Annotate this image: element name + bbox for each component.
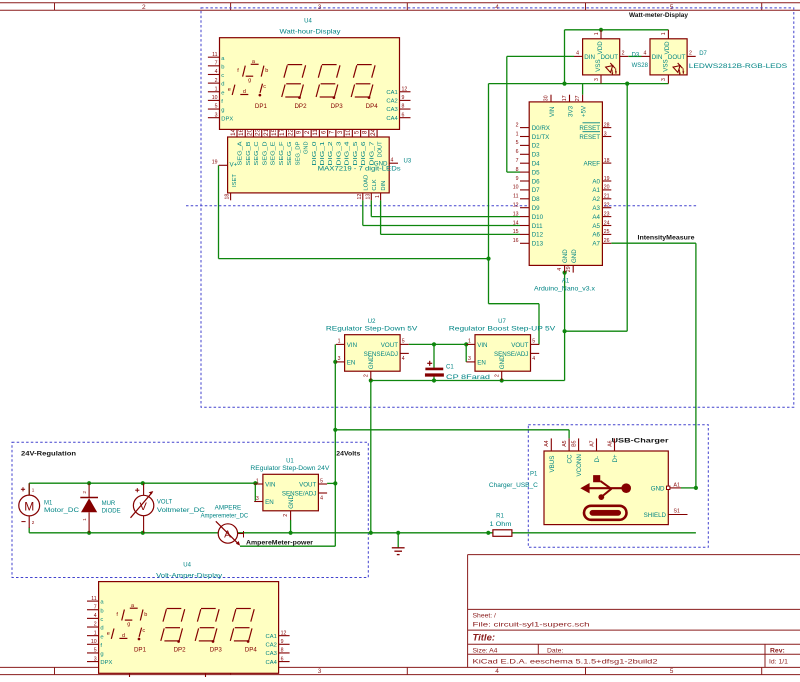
wire GND net arduino to rail [565, 84, 628, 381]
svg-text:RESET: RESET [579, 125, 600, 132]
wire ground symbol stem [397, 533, 399, 548]
svg-text:3: 3 [594, 78, 600, 81]
svg-text:20: 20 [246, 128, 253, 135]
svg-text:MAX7219 - 7 digit-LEDs: MAX7219 - 7 digit-LEDs [318, 167, 401, 173]
svg-text:DOUT: DOUT [668, 54, 686, 61]
svg-text:11: 11 [91, 596, 96, 602]
svg-text:2: 2 [82, 491, 88, 494]
svg-text:5: 5 [353, 130, 360, 134]
svg-text:8: 8 [516, 167, 519, 173]
svg-text:DIG_3: DIG_3 [336, 142, 342, 166]
svg-text:VSS: VSS [595, 59, 602, 71]
svg-text:SEG_G: SEG_G [287, 142, 293, 166]
svg-text:A1: A1 [562, 279, 570, 285]
svg-text:P1: P1 [530, 472, 538, 478]
svg-text:A4: A4 [544, 440, 550, 446]
svg-text:WS28: WS28 [632, 63, 649, 69]
svg-text:4: 4 [215, 69, 218, 75]
svg-text:REgulator Step-Down 24V: REgulator Step-Down 24V [250, 466, 329, 472]
svg-text:1: 1 [661, 32, 667, 35]
svg-text:6: 6 [281, 656, 284, 662]
svg-text:25: 25 [604, 229, 610, 235]
svg-text:Date:: Date: [547, 647, 563, 654]
title block [468, 555, 800, 668]
svg-text:9: 9 [281, 639, 284, 645]
svg-text:11: 11 [312, 129, 319, 136]
svg-text:VIN: VIN [549, 107, 556, 117]
svg-text:DIG_2: DIG_2 [328, 142, 334, 166]
svg-text:SEG_A: SEG_A [238, 141, 244, 165]
svg-text:D3: D3 [632, 53, 640, 59]
svg-text:CA4: CA4 [266, 660, 278, 666]
svg-text:5: 5 [215, 104, 218, 110]
svg-text:6: 6 [516, 149, 519, 155]
svg-text:e: e [107, 631, 110, 637]
svg-text:17: 17 [562, 95, 568, 101]
wire U1 VOUT link [327, 482, 335, 484]
svg-text:c: c [221, 73, 224, 79]
svg-text:SEG_DP: SEG_DP [295, 141, 301, 165]
svg-text:AmpereMeter-power: AmpereMeter-power [246, 540, 313, 547]
svg-text:4: 4 [644, 51, 647, 57]
svg-text:14: 14 [513, 220, 519, 226]
svg-text:VOUT: VOUT [381, 342, 398, 349]
svg-text:VOUT: VOUT [299, 482, 316, 489]
svg-text:24: 24 [604, 220, 610, 226]
svg-text:15: 15 [271, 128, 278, 135]
svg-text:2: 2 [689, 51, 692, 57]
svg-text:U1: U1 [286, 459, 294, 465]
svg-text:24V-Regulation: 24V-Regulation [21, 451, 76, 458]
svg-text:27: 27 [575, 95, 581, 101]
voltmeter VOLT Voltmeter_DC [131, 483, 206, 532]
svg-text:24Volts: 24Volts [336, 450, 360, 457]
svg-text:D7: D7 [699, 51, 707, 57]
svg-text:10: 10 [345, 128, 352, 135]
svg-text:26: 26 [604, 238, 610, 244]
svg-text:Id: 1/1: Id: 1/1 [769, 659, 788, 666]
wire 24V to USB CC pin [335, 430, 569, 439]
svg-text:U4: U4 [304, 19, 312, 25]
wire amperemeter to 24Volts [240, 545, 335, 547]
svg-text:D10: D10 [532, 214, 544, 221]
svg-text:5: 5 [670, 668, 674, 675]
svg-text:Watt-hour-Display: Watt-hour-Display [280, 30, 341, 36]
svg-text:7: 7 [516, 158, 519, 164]
svg-text:d: d [243, 89, 246, 95]
svg-text:Voltmeter_DC: Voltmeter_DC [157, 508, 206, 514]
svg-text:9: 9 [402, 95, 405, 101]
svg-text:DP2: DP2 [174, 647, 187, 654]
svg-text:Rev:: Rev: [770, 647, 785, 654]
regulator U7 boost step-up 5V [449, 319, 556, 381]
svg-text:LEDWS2812B-RGB-LEDS: LEDWS2812B-RGB-LEDS [689, 64, 787, 70]
svg-text:b: b [265, 68, 268, 74]
svg-text:DP4: DP4 [245, 647, 258, 654]
regulator U2 step-down 5V [326, 319, 418, 381]
wire V+ of U3 to +5V [219, 165, 489, 258]
svg-text:b: b [144, 612, 147, 618]
svg-text:A0: A0 [592, 178, 600, 185]
svg-text:3: 3 [215, 112, 218, 118]
svg-text:A6: A6 [592, 232, 600, 239]
svg-text:VIN: VIN [265, 482, 275, 489]
svg-text:GND: GND [651, 485, 665, 492]
wire D3 DOUT to D7 DIN [628, 55, 641, 57]
svg-text:4: 4 [391, 158, 394, 164]
svg-text:2: 2 [304, 130, 311, 134]
svg-text:A6: A6 [607, 440, 613, 446]
svg-text:Size: A4: Size: A4 [473, 647, 498, 654]
wire DIN to D12 [381, 200, 520, 234]
svg-text:DOUT: DOUT [378, 141, 384, 157]
svg-text:SEG_F: SEG_F [279, 141, 285, 166]
svg-text:22: 22 [604, 203, 610, 209]
svg-text:DIN: DIN [584, 54, 595, 61]
svg-text:Watt-meter-Display: Watt-meter-Display [629, 12, 688, 19]
svg-text:e: e [221, 90, 224, 96]
svg-text:c: c [142, 628, 145, 634]
svg-text:VDD: VDD [664, 41, 671, 55]
svg-text:5: 5 [320, 478, 323, 484]
svg-text:4: 4 [320, 496, 323, 502]
svg-text:EN: EN [477, 359, 486, 366]
diode MUR DIODE [80, 483, 120, 532]
svg-text:b: b [221, 64, 224, 70]
svg-text:7: 7 [329, 130, 336, 134]
svg-text:12: 12 [281, 630, 287, 636]
svg-text:GND: GND [368, 355, 375, 369]
svg-text:MUR: MUR [102, 501, 116, 507]
svg-text:VDD: VDD [597, 41, 604, 55]
wire VDD rail to WS2812 LEDs [565, 30, 669, 84]
svg-text:KiCad E.D.A. eeschema 5.1.5+d: KiCad E.D.A. eeschema 5.1.5+dfsg1-2build… [473, 659, 658, 666]
svg-text:USB-Charger: USB-Charger [612, 437, 669, 444]
svg-text:CA1: CA1 [386, 90, 397, 96]
svg-text:5: 5 [532, 339, 535, 345]
svg-text:U3: U3 [404, 158, 412, 164]
svg-text:10: 10 [91, 639, 97, 645]
svg-text:VBUS: VBUS [549, 456, 556, 473]
svg-text:U4: U4 [183, 562, 191, 568]
svg-text:D7: D7 [532, 187, 540, 194]
svg-text:DIODE: DIODE [102, 509, 121, 515]
svg-text:1: 1 [516, 131, 519, 137]
svg-text:RESET: RESET [579, 134, 600, 141]
svg-text:6: 6 [320, 130, 327, 134]
svg-text:A7: A7 [592, 241, 600, 248]
svg-text:8: 8 [402, 104, 405, 110]
capacitor C1 CP 8Farad [425, 361, 490, 381]
svg-text:1: 1 [256, 478, 259, 484]
svg-text:DP2: DP2 [294, 103, 307, 110]
wire GND rail [371, 380, 565, 382]
svg-text:U7: U7 [498, 319, 506, 325]
svg-text:CA2: CA2 [266, 643, 277, 649]
svg-text:2: 2 [494, 374, 500, 377]
svg-text:16: 16 [513, 238, 519, 244]
svg-text:9: 9 [296, 130, 303, 134]
LED D7 WS2812B [641, 30, 695, 84]
net label 24Volts [336, 450, 360, 457]
svg-text:2: 2 [32, 520, 35, 525]
svg-text:2: 2 [622, 51, 625, 57]
svg-text:g: g [127, 621, 130, 627]
svg-text:8: 8 [362, 130, 369, 134]
amperemeter AMPERE Amperemeter_DC [201, 505, 249, 545]
svg-text:EN: EN [265, 499, 274, 506]
connector P1 Charger_USB_C [489, 438, 688, 524]
svg-text:C1: C1 [446, 365, 454, 371]
dashed box Watt-meter-Display [201, 8, 794, 407]
svg-text:D1/TX: D1/TX [532, 134, 550, 141]
svg-text:12: 12 [513, 203, 519, 209]
svg-text:D8: D8 [532, 196, 540, 203]
svg-text:8: 8 [281, 648, 284, 654]
svg-text:3V3: 3V3 [567, 105, 574, 117]
svg-text:13: 13 [513, 211, 519, 217]
svg-text:CC: CC [567, 454, 574, 463]
svg-text:CA4: CA4 [386, 116, 398, 122]
resistor R1 1 Ohm [490, 513, 512, 536]
svg-text:B5: B5 [571, 440, 577, 446]
svg-text:b: b [100, 608, 103, 614]
svg-text:IntensityMeasure: IntensityMeasure [638, 234, 695, 241]
svg-text:Title:: Title: [473, 633, 496, 644]
wire C1 leads [433, 344, 435, 380]
svg-text:A2: A2 [592, 196, 600, 203]
svg-text:5: 5 [516, 140, 519, 146]
wire IntensityMeasure A7 to USB GND [611, 243, 696, 488]
svg-text:+5V: +5V [580, 105, 587, 117]
svg-text:VCONN: VCONN [576, 454, 583, 476]
LED D3 WS2812 [574, 30, 628, 84]
svg-text:GND: GND [304, 142, 310, 154]
svg-text:DP1: DP1 [134, 647, 147, 654]
dashed box 24V-Regulation [12, 442, 368, 577]
IC U3 MAX7219 [212, 128, 412, 200]
svg-text:21: 21 [604, 194, 610, 200]
svg-text:D+: D+ [612, 454, 619, 462]
svg-text:DOUT: DOUT [600, 54, 618, 61]
svg-text:D5: D5 [532, 169, 540, 176]
svg-text:A3: A3 [592, 205, 600, 212]
svg-text:Volt-Amper-Display: Volt-Amper-Display [156, 573, 222, 579]
svg-text:V+: V+ [230, 162, 238, 169]
svg-text:21: 21 [263, 128, 270, 135]
svg-text:4: 4 [557, 268, 563, 271]
svg-text:CA1: CA1 [266, 634, 277, 640]
svg-text:GND: GND [499, 355, 506, 369]
svg-text:9: 9 [516, 176, 519, 182]
svg-text:11: 11 [513, 194, 518, 200]
svg-text:7: 7 [94, 604, 97, 610]
svg-text:e: e [228, 87, 231, 93]
svg-text:g: g [248, 77, 251, 83]
svg-text:3: 3 [337, 130, 344, 134]
svg-text:1: 1 [338, 339, 341, 345]
svg-text:12: 12 [402, 86, 408, 92]
svg-text:1: 1 [32, 488, 35, 493]
svg-text:3: 3 [338, 356, 341, 362]
svg-text:2: 2 [94, 622, 97, 628]
svg-text:4: 4 [532, 356, 535, 362]
svg-text:CP 8Farad: CP 8Farad [446, 375, 490, 381]
ground symbol [392, 548, 405, 555]
svg-text:1: 1 [375, 195, 381, 198]
svg-text:6: 6 [402, 112, 405, 118]
svg-text:1: 1 [468, 339, 471, 345]
svg-text:4: 4 [94, 613, 97, 619]
svg-text:11: 11 [212, 52, 217, 58]
net label IntensityMeasure [638, 234, 695, 241]
svg-text:Amperemeter_DC: Amperemeter_DC [201, 513, 249, 519]
svg-text:7: 7 [215, 61, 218, 67]
dashed line across sheet [186, 205, 697, 207]
svg-text:A5: A5 [562, 440, 568, 446]
svg-text:5: 5 [94, 648, 97, 654]
svg-text:2: 2 [363, 374, 369, 377]
dashed box USB-Charger [528, 425, 708, 548]
svg-text:VOLT: VOLT [157, 499, 173, 505]
svg-text:SEG_E: SEG_E [271, 141, 277, 165]
IC A1 Arduino_Nano_v3.x [513, 95, 612, 293]
svg-text:VOUT: VOUT [511, 342, 528, 349]
svg-text:DPX: DPX [100, 660, 112, 666]
svg-text:2: 2 [215, 78, 218, 84]
svg-text:CA2: CA2 [386, 99, 397, 105]
svg-text:File: circuit-syl1-superc.sch: File: circuit-syl1-superc.sch [473, 622, 590, 629]
svg-text:D13: D13 [532, 241, 544, 248]
svg-text:3: 3 [604, 131, 607, 137]
svg-text:SHIELD: SHIELD [644, 512, 667, 519]
svg-text:R1: R1 [496, 513, 504, 519]
regulator U1 step-down 24V [250, 459, 329, 521]
svg-text:D12: D12 [532, 232, 544, 239]
svg-text:A5: A5 [592, 223, 600, 230]
svg-text:3: 3 [256, 496, 259, 502]
svg-text:4: 4 [402, 356, 405, 362]
svg-text:A7: A7 [589, 440, 595, 446]
svg-text:A1: A1 [592, 187, 600, 194]
7-segment display U4 Watt-hour-Display [208, 19, 411, 130]
svg-text:GND: GND [288, 495, 295, 509]
svg-text:g: g [100, 652, 103, 658]
svg-text:D3: D3 [532, 152, 540, 159]
svg-text:3: 3 [94, 656, 97, 662]
svg-text:5: 5 [402, 339, 405, 345]
svg-text:D11: D11 [532, 223, 543, 230]
svg-text:10: 10 [513, 185, 519, 191]
svg-text:DP3: DP3 [210, 647, 223, 654]
svg-text:24: 24 [370, 128, 377, 135]
svg-text:2: 2 [142, 4, 146, 11]
svg-text:AMPERE: AMPERE [215, 505, 242, 511]
svg-text:SEG_D: SEG_D [262, 142, 268, 166]
svg-text:CA3: CA3 [386, 107, 397, 113]
svg-text:17: 17 [279, 128, 286, 135]
svg-text:M: M [24, 499, 34, 513]
svg-text:VIN: VIN [347, 342, 357, 349]
svg-text:c: c [263, 84, 266, 90]
svg-text:U2: U2 [368, 319, 376, 325]
svg-text:1 Ohm: 1 Ohm [490, 522, 512, 528]
svg-text:M1: M1 [44, 500, 53, 506]
svg-text:GND: GND [562, 249, 569, 263]
svg-text:13: 13 [366, 194, 372, 200]
svg-text:12: 12 [357, 194, 363, 200]
svg-text:DIG_6: DIG_6 [361, 142, 367, 166]
wire U2 VOUT to U7 VIN [409, 344, 466, 362]
svg-text:4: 4 [576, 51, 579, 57]
svg-text:22: 22 [287, 128, 294, 135]
svg-text:19: 19 [604, 176, 610, 182]
svg-text:19: 19 [212, 160, 218, 166]
svg-text:Arduino_Nano_v3.x: Arduino_Nano_v3.x [534, 287, 595, 293]
svg-text:D9: D9 [532, 205, 540, 212]
svg-text:SEG_C: SEG_C [254, 142, 260, 166]
svg-text:14: 14 [230, 128, 237, 135]
svg-text:2: 2 [283, 514, 289, 517]
svg-text:30: 30 [544, 95, 550, 101]
net label AmpereMeter-power [246, 540, 313, 547]
wire +5V vertical to U7 VOUT [489, 84, 540, 345]
svg-text:e: e [100, 634, 103, 640]
svg-text:1: 1 [82, 518, 88, 521]
svg-text:15: 15 [513, 229, 519, 235]
svg-text:4: 4 [495, 668, 499, 675]
svg-text:Charger_USB_C: Charger_USB_C [489, 483, 539, 489]
svg-text:VIN: VIN [477, 342, 487, 349]
svg-text:29: 29 [566, 266, 572, 272]
svg-text:g: g [221, 108, 224, 114]
svg-text:DIN: DIN [381, 181, 387, 191]
svg-text:DP4: DP4 [366, 103, 379, 110]
svg-text:EN: EN [347, 359, 356, 366]
svg-text:23: 23 [255, 128, 262, 135]
motor M1 Motor_DC [19, 483, 80, 528]
svg-text:D2: D2 [532, 143, 540, 150]
svg-text:A1: A1 [674, 482, 680, 488]
svg-text:D4: D4 [532, 161, 540, 168]
wire D5 to WS2812 DIN [507, 56, 574, 172]
svg-text:S1: S1 [674, 509, 680, 515]
svg-text:2: 2 [516, 122, 519, 128]
svg-text:DIG_5: DIG_5 [353, 142, 359, 166]
svg-text:d: d [122, 633, 125, 639]
svg-text:DIG_1: DIG_1 [320, 142, 326, 166]
svg-text:D6: D6 [532, 178, 540, 185]
svg-text:CA3: CA3 [266, 651, 277, 657]
svg-text:D-: D- [594, 456, 601, 463]
svg-text:1: 1 [215, 86, 218, 92]
wire ground bottom rail [29, 381, 696, 533]
svg-text:Regulator Boost Step-UP 5V: Regulator Boost Step-UP 5V [449, 327, 556, 333]
svg-text:REgulator Step-Down 5V: REgulator Step-Down 5V [326, 327, 418, 333]
wire 24Volts vertical [334, 344, 336, 546]
wire +5V / VSS horizontal line [489, 84, 669, 95]
svg-text:DIG_4: DIG_4 [345, 142, 351, 166]
svg-text:DIG_0: DIG_0 [312, 142, 318, 166]
svg-text:ISET: ISET [232, 174, 238, 187]
svg-text:28: 28 [604, 122, 610, 128]
svg-text:CLK: CLK [372, 179, 378, 190]
wire LOAD to D11 [363, 200, 520, 225]
svg-text:1: 1 [94, 630, 97, 636]
svg-text:3: 3 [468, 356, 471, 362]
svg-text:LOAD: LOAD [363, 175, 369, 191]
svg-text:20: 20 [604, 185, 610, 191]
